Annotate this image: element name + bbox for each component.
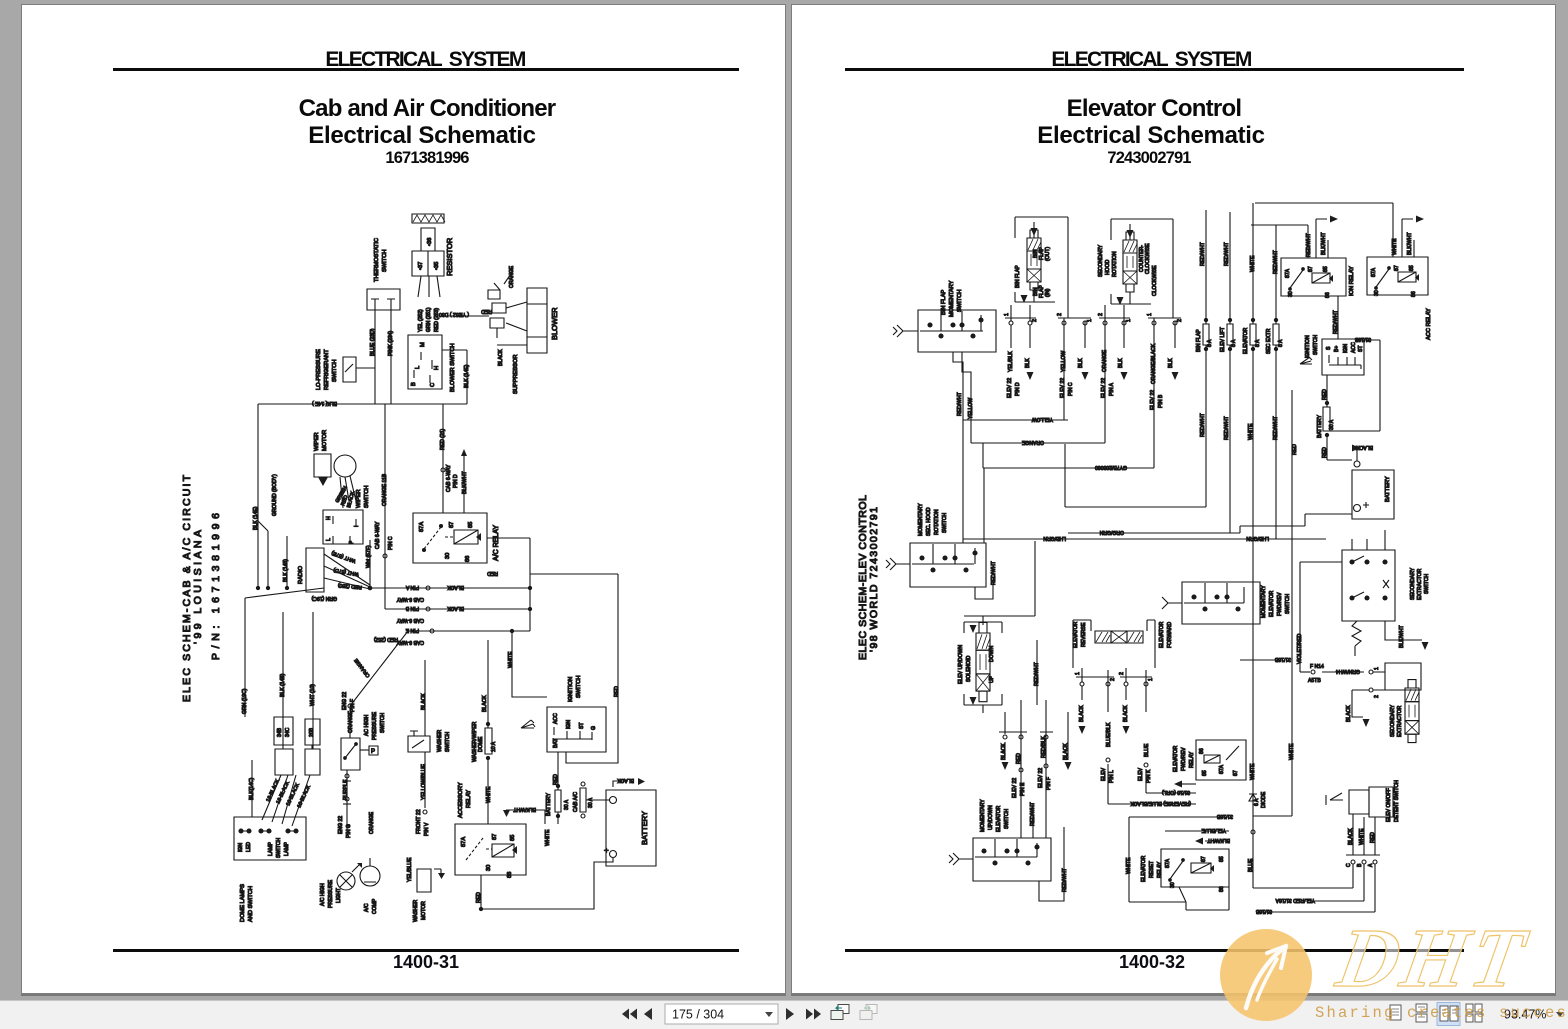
- svg-text:BLACK: BLACK: [1356, 444, 1373, 450]
- svg-text:UP/DOWN: UP/DOWN: [988, 805, 994, 830]
- svg-text:RED/WHT: RED/WHT: [1030, 802, 1036, 826]
- svg-text:BATTERY: BATTERY: [1385, 476, 1391, 502]
- svg-text:SWITCH: SWITCH: [380, 713, 386, 733]
- svg-text:ORANGE: ORANGE: [509, 265, 515, 288]
- svg-text:30 A: 30 A: [588, 797, 594, 808]
- svg-text:YELLOW/BLUE: YELLOW/BLUE: [421, 763, 427, 800]
- svg-text:RED/WHT: RED/WHT: [1224, 416, 1230, 440]
- svg-text:BLK/WHT: BLK/WHT: [1399, 625, 1405, 648]
- svg-text:SWITCH: SWITCH: [382, 250, 388, 272]
- svg-text:CAB A/C: CAB A/C: [573, 792, 579, 812]
- svg-text:H: H: [434, 366, 440, 370]
- svg-text:BLACK: BLACK: [1079, 705, 1085, 722]
- svg-text:WASHER: WASHER: [437, 730, 443, 752]
- svg-text:MOMENTARY: MOMENTARY: [918, 503, 924, 536]
- svg-text:ROTATION: ROTATION: [934, 509, 940, 535]
- svg-text:(REVERSE) BLUE/BLACK: (REVERSE) BLUE/BLACK: [1130, 800, 1191, 806]
- svg-text:ST: ST: [1358, 345, 1364, 352]
- svg-text:MOTOR: MOTOR: [421, 901, 427, 920]
- svg-text:M: M: [420, 342, 426, 347]
- svg-text:AC HIGH: AC HIGH: [364, 714, 370, 736]
- svg-text:RED: RED: [481, 308, 492, 314]
- svg-text:1: 1: [1075, 672, 1081, 675]
- svg-text:REVERSE: REVERSE: [1081, 622, 1087, 647]
- svg-text:ELEV: ELEV: [1138, 767, 1144, 781]
- svg-text:87: 87: [492, 834, 498, 840]
- svg-text:ELEV 22: ELEV 22: [1012, 778, 1018, 798]
- svg-text:ELEVATOR: ELEVATOR: [1269, 590, 1275, 617]
- svg-text:BLK: BLK: [1025, 358, 1031, 368]
- svg-text:PIN C: PIN C: [388, 536, 394, 550]
- svg-text:•36: •36: [427, 238, 433, 246]
- svg-text:BLACK: BLACK: [617, 777, 634, 783]
- svg-text:ELEV 22: ELEV 22: [1007, 378, 1013, 398]
- svg-text:YEL/BLK: YEL/BLK: [1008, 351, 1014, 372]
- svg-text:RED: RED: [1370, 832, 1376, 843]
- svg-text:SWITCH: SWITCH: [957, 290, 963, 312]
- svg-text:BLK: BLK: [1168, 358, 1174, 368]
- svg-text:LAMP: LAMP: [268, 842, 274, 856]
- svg-text:BLACK: BLACK: [482, 695, 488, 712]
- svg-text:2: 2: [1374, 695, 1380, 698]
- svg-text:MOMENTARY: MOMENTARY: [949, 280, 955, 317]
- svg-text:+: +: [604, 846, 609, 855]
- svg-text:DHT: DHT: [1330, 913, 1537, 1005]
- svg-text:SUPPRESSOR: SUPPRESSOR: [513, 354, 519, 394]
- svg-text:2: 2: [1177, 319, 1183, 322]
- svg-text:87A: 87A: [419, 522, 425, 532]
- svg-text:BLACK: BLACK: [1123, 705, 1129, 722]
- svg-text:WHITE: WHITE: [1392, 238, 1398, 255]
- svg-text:RED/WHT: RED/WHT: [1224, 242, 1230, 266]
- svg-text:RED: RED: [1292, 444, 1298, 455]
- svg-text:RED/WHT: RED/WHT: [991, 561, 997, 585]
- svg-text:PRESSURE: PRESSURE: [328, 879, 334, 908]
- svg-text:UP: UP: [989, 675, 995, 683]
- svg-text:FWD/REV: FWD/REV: [1181, 747, 1187, 771]
- svg-text:CLOCKWISE: CLOCKWISE: [1145, 243, 1151, 274]
- svg-text:BIN FLAP: BIN FLAP: [1015, 265, 1021, 288]
- svg-text:31/16B: 31/16B: [1274, 656, 1291, 662]
- svg-text:S: S: [1326, 346, 1332, 350]
- svg-text:30: 30: [1374, 290, 1380, 296]
- svg-text:GROUND (BODY): GROUND (BODY): [272, 474, 278, 516]
- svg-text:YELLOW: YELLOW: [1032, 416, 1053, 422]
- svg-text:SWITCH: SWITCH: [1004, 809, 1010, 829]
- svg-text:SECONDARY: SECONDARY: [1410, 567, 1416, 600]
- svg-text:ACC: ACC: [1351, 342, 1357, 353]
- svg-text:RED/WHT: RED/WHT: [1062, 868, 1068, 892]
- svg-text:87: 87: [1201, 856, 1207, 862]
- svg-text:86: 86: [465, 556, 471, 562]
- svg-text:6 A: 6 A: [1254, 798, 1260, 806]
- svg-text:BLACK: BLACK: [1348, 828, 1354, 845]
- svg-text:ELEV LIFT: ELEV LIFT: [1220, 327, 1226, 352]
- svg-text:MOMENTARY: MOMENTARY: [980, 799, 986, 832]
- svg-text:PIN B: PIN B: [1158, 394, 1164, 408]
- svg-text:DOWN: DOWN: [989, 646, 995, 662]
- svg-text:87A: 87A: [461, 837, 467, 847]
- svg-text:RED/WHT: RED/WHT: [1200, 413, 1206, 437]
- svg-text:85: 85: [1409, 265, 1415, 271]
- svg-text:'98 WORLD 7243002791: '98 WORLD 7243002791: [868, 507, 880, 652]
- svg-text:ORANGE: ORANGE: [353, 657, 371, 679]
- svg-text:RED: RED: [1322, 447, 1328, 458]
- svg-text:PIN K: PIN K: [1146, 769, 1152, 783]
- svg-text:ACCESSORY: ACCESSORY: [458, 782, 464, 818]
- svg-text:A/C: A/C: [364, 903, 370, 912]
- svg-text:BIN FLAP: BIN FLAP: [941, 290, 947, 315]
- svg-text:WASHER: WASHER: [413, 900, 419, 922]
- svg-text:H: H: [326, 516, 332, 520]
- svg-text:WHITE: WHITE: [545, 829, 551, 846]
- svg-text:PIN B: PIN B: [405, 605, 419, 611]
- svg-text:8 A: 8 A: [1207, 339, 1213, 347]
- svg-text:FWD/REV: FWD/REV: [1277, 592, 1283, 616]
- svg-text:RELAY: RELAY: [1157, 861, 1163, 878]
- svg-text:RED (21): RED (21): [440, 428, 446, 450]
- svg-text:ELEV: ELEV: [1101, 767, 1107, 781]
- svg-text:CAB 6-WAY: CAB 6-WAY: [396, 617, 424, 623]
- svg-text:THERMOSTATIC: THERMOSTATIC: [374, 238, 380, 282]
- svg-text:BATTERY: BATTERY: [1317, 414, 1323, 438]
- svg-text:ORANGE 11B: ORANGE 11B: [382, 473, 388, 506]
- svg-text:2: 2: [1032, 319, 1038, 322]
- svg-text:YEL (252): YEL (252): [418, 309, 424, 332]
- svg-text:SECONDARY: SECONDARY: [1390, 704, 1396, 737]
- svg-text:ACC RELAY: ACC RELAY: [1426, 308, 1432, 340]
- svg-text:10 A: 10 A: [491, 741, 497, 752]
- svg-text:BLACK: BLACK: [447, 584, 464, 590]
- svg-text:PIN V: PIN V: [424, 822, 430, 836]
- svg-text:MOMENTARY: MOMENTARY: [1261, 585, 1267, 618]
- svg-text:ELEV 22: ELEV 22: [1150, 390, 1156, 410]
- svg-text:Sharing creates success: Sharing creates success: [1315, 1004, 1568, 1022]
- svg-text:87A: 87A: [1371, 267, 1377, 277]
- svg-text:2: 2: [1119, 672, 1125, 675]
- svg-text:LAMP: LAMP: [284, 842, 290, 856]
- svg-text:GRN (251): GRN (251): [426, 307, 432, 332]
- svg-text:EXTRACTOR: EXTRACTOR: [1417, 568, 1423, 600]
- svg-text:IGNITION: IGNITION: [568, 677, 574, 702]
- svg-text:8 A: 8 A: [1278, 339, 1284, 347]
- svg-text:ROTATION: ROTATION: [1112, 251, 1118, 277]
- svg-text:PIN D: PIN D: [1015, 382, 1021, 396]
- svg-text:31/16B: 31/16B: [1216, 813, 1233, 819]
- svg-text:ORANGE: ORANGE: [1021, 439, 1044, 445]
- svg-text:RED/WHT: RED/WHT: [1273, 250, 1279, 274]
- svg-text:ORANGE: ORANGE: [348, 710, 354, 733]
- svg-text:8 A: 8 A: [1255, 339, 1261, 347]
- svg-text:L: L: [415, 366, 421, 369]
- svg-text:PIN A: PIN A: [1109, 382, 1115, 396]
- svg-text:34B: 34B: [277, 727, 283, 737]
- svg-text:BLOWER SWITCH: BLOWER SWITCH: [450, 343, 456, 392]
- svg-text:86: 86: [1325, 292, 1331, 298]
- svg-text:B+: B+: [1334, 346, 1340, 352]
- svg-text:SWITCH: SWITCH: [1285, 594, 1291, 614]
- svg-text:LHB/GRN: LHB/GRN: [1246, 535, 1269, 541]
- svg-text:YEL/BLUE: YEL/BLUE: [1201, 827, 1226, 833]
- svg-text:ELEVATOR: ELEVATOR: [996, 805, 1002, 832]
- svg-text:2: 2: [1098, 313, 1104, 316]
- svg-text:B: B: [411, 382, 417, 386]
- svg-text:1: 1: [1126, 319, 1132, 322]
- svg-text:87A: 87A: [1165, 858, 1171, 868]
- svg-text:LO-PRESSURE: LO-PRESSURE: [316, 349, 322, 390]
- svg-text:RED/BLK: RED/BLK: [1041, 736, 1047, 758]
- svg-text:BLUE/BLK: BLUE/BLK: [1106, 722, 1112, 747]
- svg-text:GY7B/203060: GY7B/203060: [1095, 464, 1127, 470]
- svg-text:ENG 22: ENG 22: [342, 692, 348, 710]
- svg-text:SWITCH: SWITCH: [942, 513, 948, 533]
- svg-text:ENG 22: ENG 22: [338, 816, 344, 834]
- svg-text:SECONDARY: SECONDARY: [1098, 244, 1104, 277]
- svg-text:LIGHT: LIGHT: [336, 888, 342, 903]
- svg-text:'99 LOUISIANA: '99 LOUISIANA: [192, 530, 204, 644]
- svg-text:1: 1: [1374, 667, 1380, 670]
- svg-text:31/16 (ORL): 31/16 (ORL): [1162, 789, 1190, 795]
- svg-text:WHITE: WHITE: [1250, 255, 1256, 272]
- svg-text:CAB 6-WAY: CAB 6-WAY: [446, 464, 452, 492]
- svg-text:RESET: RESET: [1149, 861, 1155, 878]
- svg-text:8 A: 8 A: [1231, 339, 1237, 347]
- svg-text:BLK: BLK: [1118, 358, 1124, 368]
- svg-text:RED: RED: [1016, 753, 1022, 764]
- svg-text:PRESSURE: PRESSURE: [372, 711, 378, 740]
- svg-text:SWITCH: SWITCH: [576, 676, 582, 698]
- svg-text:85: 85: [1202, 770, 1208, 776]
- svg-text:A5TB: A5TB: [1308, 678, 1321, 684]
- svg-text:(IN): (IN): [1045, 288, 1051, 297]
- svg-text:WHITE: WHITE: [486, 786, 492, 803]
- svg-text:PIN F: PIN F: [350, 699, 356, 712]
- svg-text:ELEV 22: ELEV 22: [1101, 378, 1107, 398]
- svg-text:(OUT): (OUT): [1045, 247, 1051, 261]
- svg-text:BLK/WHT: BLK/WHT: [1207, 837, 1230, 843]
- svg-text:IGN: IGN: [238, 843, 244, 852]
- svg-text:BLK/WHT: BLK/WHT: [513, 806, 536, 812]
- svg-text:REFRIGERANT: REFRIGERANT: [324, 349, 330, 390]
- svg-text:SWITCH: SWITCH: [276, 838, 282, 858]
- svg-text:2: 2: [1110, 678, 1116, 681]
- svg-text:IGNITION: IGNITION: [1305, 335, 1311, 358]
- svg-text:31/16B: 31/16B: [1354, 336, 1371, 342]
- svg-text:PIN D: PIN D: [453, 474, 459, 488]
- svg-text:30: 30: [1170, 882, 1176, 888]
- svg-text:ELEVATOR: ELEVATOR: [1159, 621, 1165, 648]
- svg-text:F N14: F N14: [1310, 664, 1324, 670]
- svg-text:BLK/WHT: BLK/WHT: [462, 471, 468, 494]
- svg-text:PINK (234): PINK (234): [388, 331, 394, 356]
- svg-text:DOME: DOME: [478, 736, 484, 752]
- svg-text:WIPER: WIPER: [356, 489, 362, 508]
- svg-text:WHT (57D): WHT (57D): [333, 567, 360, 577]
- svg-text:30 A: 30 A: [1329, 419, 1335, 430]
- svg-text:87A: 87A: [1219, 764, 1225, 774]
- svg-text:30: 30: [486, 865, 492, 871]
- svg-text:SWITCH: SWITCH: [364, 486, 370, 508]
- svg-text:1: 1: [1004, 313, 1010, 316]
- svg-text:A/C RELAY: A/C RELAY: [493, 525, 500, 561]
- svg-text:1: 1: [1148, 678, 1154, 681]
- svg-text:SOLENOID: SOLENOID: [966, 655, 972, 682]
- svg-text:DOME LAMPS: DOME LAMPS: [240, 884, 246, 922]
- svg-text:CLOCKWISE: CLOCKWISE: [1152, 265, 1158, 296]
- svg-text:1: 1: [1087, 319, 1093, 322]
- svg-text:PIN A: PIN A: [405, 584, 419, 590]
- svg-text:20B: 20B: [309, 727, 315, 737]
- svg-text:PIN E: PIN E: [1020, 782, 1026, 796]
- svg-text:RED: RED: [476, 892, 482, 903]
- svg-text:SWITCH: SWITCH: [445, 732, 451, 752]
- svg-text:30 A: 30 A: [564, 799, 570, 810]
- svg-text:SEC EXTR: SEC EXTR: [1266, 328, 1272, 354]
- svg-text:P: P: [371, 749, 375, 755]
- svg-text:GRN/WH4: GRN/WH4: [1336, 668, 1360, 674]
- svg-text:BLUE: BLUE: [1144, 743, 1150, 757]
- svg-text:RELAY: RELAY: [1189, 751, 1195, 768]
- svg-text:Wht (57F): Wht (57F): [366, 545, 372, 568]
- svg-text:•35: •35: [434, 262, 440, 270]
- svg-text:85: 85: [1219, 856, 1225, 862]
- svg-text:BLK( 14E ): BLK( 14E ): [312, 400, 337, 406]
- svg-text:87: 87: [1394, 265, 1400, 271]
- svg-text:•37: •37: [418, 262, 424, 270]
- svg-text:RED/WHT: RED/WHT: [1200, 242, 1206, 266]
- svg-text:PIN L: PIN L: [1109, 770, 1115, 783]
- svg-text:I: I: [354, 526, 360, 527]
- svg-text:87A: 87A: [1285, 268, 1291, 278]
- svg-text:87: 87: [1233, 770, 1239, 776]
- svg-text:30: 30: [445, 553, 451, 559]
- svg-text:BLK/WHT: BLK/WHT: [1407, 232, 1413, 255]
- svg-text:ELEVATOR: ELEVATOR: [1073, 621, 1079, 648]
- svg-text:CAB 6-WAY: CAB 6-WAY: [396, 596, 424, 602]
- svg-text:SEC. HOOD: SEC. HOOD: [926, 507, 932, 536]
- svg-text:LHB/GRN: LHB/GRN: [1043, 535, 1066, 541]
- svg-text:YEL/BLUE: YEL/BLUE: [407, 857, 413, 882]
- svg-text:1: 1: [1147, 313, 1153, 316]
- svg-text:YEL/RED 31/16A: YEL/RED 31/16A: [1275, 897, 1315, 903]
- svg-text:RESISTOR: RESISTOR: [445, 237, 454, 276]
- svg-text:ACC: ACC: [553, 713, 559, 724]
- svg-text:P/N: 1671381996: P/N: 1671381996: [210, 513, 222, 660]
- svg-text:ELEVATOR: ELEVATOR: [1243, 327, 1249, 354]
- svg-text:BLUE (23D): BLUE (23D): [370, 328, 376, 356]
- svg-text:85: 85: [510, 835, 516, 841]
- svg-text:PIN F: PIN F: [1046, 777, 1052, 790]
- svg-text:ELEVATOR: ELEVATOR: [1141, 855, 1147, 882]
- svg-text:30: 30: [1288, 291, 1294, 297]
- svg-text:MOTOR: MOTOR: [322, 430, 328, 451]
- svg-text:87: 87: [449, 522, 455, 528]
- svg-text:RED (252): RED (252): [374, 636, 398, 642]
- svg-text:WIPER: WIPER: [314, 432, 320, 451]
- svg-text:WHITE: WHITE: [1248, 423, 1254, 440]
- svg-text:BATTERY: BATTERY: [640, 811, 649, 845]
- svg-text:34C: 34C: [285, 727, 291, 737]
- svg-text:PIN G: PIN G: [346, 824, 352, 838]
- svg-text:LED: LED: [246, 842, 252, 852]
- svg-text:COMP: COMP: [372, 898, 378, 914]
- svg-text:ORANGE: ORANGE: [369, 811, 375, 834]
- svg-text:EXTRACTOR: EXTRACTOR: [1397, 705, 1403, 737]
- svg-text:2: 2: [1057, 313, 1063, 316]
- svg-text:ELEVATOR: ELEVATOR: [1173, 745, 1179, 772]
- svg-text:ELEV UP/DOWN: ELEV UP/DOWN: [958, 645, 964, 684]
- svg-text:85: 85: [1323, 266, 1329, 272]
- svg-text:BAT: BAT: [553, 738, 559, 748]
- svg-text:RELAY: RELAY: [466, 790, 472, 808]
- svg-text:ELEV 22: ELEV 22: [1038, 768, 1044, 788]
- svg-text:A/C HIGH: A/C HIGH: [320, 883, 326, 906]
- svg-text:BLK (148): BLK (148): [283, 559, 289, 582]
- svg-text:85: 85: [468, 522, 474, 528]
- svg-text:86: 86: [1219, 886, 1225, 892]
- svg-text:RED: RED: [614, 686, 620, 697]
- svg-text:BLACK: BLACK: [421, 693, 427, 710]
- svg-text:DETENT SWITCH: DETENT SWITCH: [1394, 780, 1400, 822]
- svg-text:WHITE: WHITE: [508, 651, 514, 668]
- svg-text:BLACK: BLACK: [1346, 705, 1352, 722]
- svg-text:RED: RED: [487, 570, 498, 576]
- svg-text:SWITCH: SWITCH: [1313, 335, 1319, 355]
- svg-text:31/16B: 31/16B: [1255, 908, 1272, 914]
- svg-text:ORG/GRN: ORG/GRN: [1099, 529, 1124, 535]
- svg-text:BLK (14E): BLK (14E): [253, 506, 259, 530]
- svg-text:BLOWER: BLOWER: [550, 307, 559, 340]
- svg-text:PIN C: PIN C: [1068, 382, 1074, 396]
- svg-text:C: C: [430, 383, 436, 387]
- svg-text:BLACK: BLACK: [498, 349, 504, 366]
- svg-text:86: 86: [507, 872, 513, 878]
- svg-text:BLK: BLK: [1078, 358, 1084, 368]
- svg-text:GRN (19C): GRN (19C): [311, 595, 337, 601]
- svg-text:RED/WHT: RED/WHT: [1273, 416, 1279, 440]
- svg-text:BATTERY: BATTERY: [546, 792, 552, 816]
- svg-text:87: 87: [1308, 266, 1314, 272]
- svg-text:BLUE: BLUE: [1248, 858, 1254, 872]
- svg-text:BLACK: BLACK: [447, 605, 464, 611]
- svg-text:HOOD: HOOD: [1105, 259, 1111, 275]
- svg-text:BLK/WHT: BLK/WHT: [1321, 232, 1327, 255]
- svg-text:WHITE: WHITE: [1359, 828, 1365, 845]
- svg-text:SWITCH: SWITCH: [1424, 574, 1430, 594]
- svg-text:IGN: IGN: [566, 720, 572, 729]
- svg-text:AND SWITCH: AND SWITCH: [248, 886, 254, 922]
- svg-text:L: L: [326, 538, 332, 541]
- svg-text:FORWARD: FORWARD: [1167, 622, 1173, 648]
- svg-text:RADIO: RADIO: [298, 565, 304, 584]
- svg-text:BIN FLAP: BIN FLAP: [1196, 329, 1202, 352]
- svg-text:CAB 6-WAY: CAB 6-WAY: [375, 521, 381, 549]
- svg-text:SWITCH: SWITCH: [332, 360, 338, 382]
- svg-text:ELEV 22: ELEV 22: [1060, 378, 1066, 398]
- svg-text:RED/WHT: RED/WHT: [957, 392, 963, 416]
- svg-text:RED/WHT: RED/WHT: [1306, 233, 1312, 257]
- svg-text:IGN: IGN: [1343, 344, 1349, 353]
- svg-text:FRONT 22: FRONT 22: [416, 809, 422, 834]
- svg-text:YELLOW: YELLOW: [968, 398, 974, 419]
- svg-text:G: G: [591, 726, 597, 730]
- svg-text:BLACK: BLACK: [1001, 743, 1007, 760]
- svg-text:DIODE: DIODE: [1261, 791, 1267, 808]
- svg-text:ION RELAY: ION RELAY: [1349, 266, 1355, 296]
- svg-text:RED (250): RED (250): [337, 582, 362, 590]
- svg-text:GRN (19C): GRN (19C): [242, 688, 248, 714]
- svg-text:86: 86: [1411, 291, 1417, 297]
